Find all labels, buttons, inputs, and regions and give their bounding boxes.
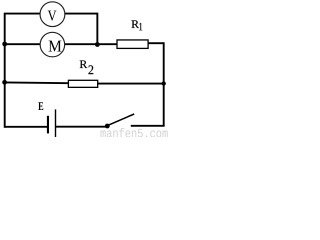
- switch pivot dot: [105, 124, 110, 129]
- label R2 letter R: [80, 60, 88, 68]
- wire row3 right stub from R2: [97, 83, 163, 85]
- resistor R2 body: [68, 80, 97, 87]
- resistor R1 body: [117, 40, 148, 48]
- junction dot left row3: [2, 80, 7, 85]
- junction dot top-right vertical at row2: [95, 42, 100, 47]
- watermark manfen5.com: [100, 128, 167, 138]
- voltmeter letter V: [48, 11, 57, 21]
- battery E short thick plate: [47, 116, 49, 134]
- switch blade: [107, 114, 134, 126]
- label R1 subscript 1: [139, 23, 142, 30]
- wire bottom left to battery: [5, 126, 48, 128]
- wire top rail (V row): [5, 13, 98, 15]
- motor letter M: [49, 41, 62, 52]
- label R2 subscript 2: [88, 65, 93, 74]
- wire R1 right stub: [148, 42, 164, 44]
- label R1 letter R: [132, 20, 140, 28]
- wire row3 left stub to R2: [5, 81, 69, 84]
- wire right-top vertical (V rail down to M row): [96, 13, 98, 45]
- wire switch fixed contact to corner: [131, 125, 165, 127]
- wire left vertical rail: [4, 13, 6, 128]
- wire row2 through M to R1: [5, 43, 117, 45]
- wire battery to switch pivot: [56, 126, 108, 128]
- battery E long thin plate: [55, 109, 56, 137]
- battery label E: [38, 102, 43, 110]
- wire right vertical rail: [163, 42, 165, 126]
- junction dot left row2: [2, 42, 7, 47]
- motor M circle: [40, 32, 65, 57]
- voltmeter V circle: [40, 2, 65, 27]
- junction dot right rail at row3: [162, 81, 166, 85]
